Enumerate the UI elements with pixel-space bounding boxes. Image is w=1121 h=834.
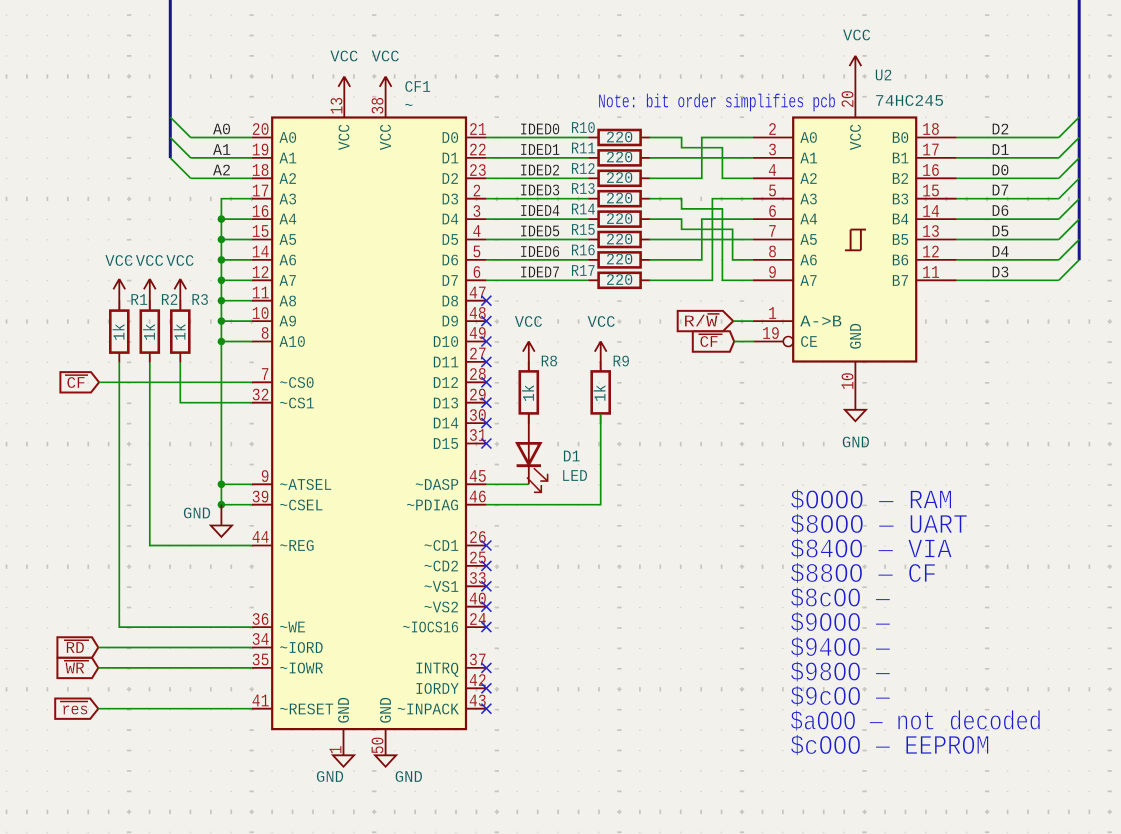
svg-text:18: 18 [922,121,940,141]
svg-text:A->B: A->B [800,314,842,333]
svg-text:41: 41 [252,692,270,712]
svg-text:VCC: VCC [378,124,397,150]
svg-text:R11: R11 [571,140,596,159]
svg-text:GND: GND [378,697,397,723]
svg-text:R1: R1 [130,292,148,311]
svg-text:VCC: VCC [337,124,356,150]
svg-text:R13: R13 [571,181,596,200]
svg-text:A6: A6 [279,253,297,272]
svg-text:B3: B3 [892,191,910,210]
svg-text:D15: D15 [433,436,459,455]
svg-text:220: 220 [606,211,634,230]
svg-text:GND: GND [395,769,423,788]
svg-text:220: 220 [606,231,634,250]
svg-text:R15: R15 [571,222,596,241]
svg-text:27: 27 [469,346,487,366]
svg-text:19: 19 [252,142,270,162]
svg-text:LED: LED [561,468,587,487]
svg-text:IDED2: IDED2 [520,162,560,181]
svg-text:R14: R14 [571,202,596,221]
svg-text:A0: A0 [800,130,818,149]
svg-text:18: 18 [252,162,270,182]
svg-text:16: 16 [922,162,940,182]
svg-text:VCC: VCC [166,253,194,272]
svg-text:D2: D2 [441,171,459,190]
svg-text:~CSEL: ~CSEL [279,497,323,516]
svg-text:38: 38 [370,97,390,115]
svg-text:D0: D0 [441,130,459,149]
svg-text:14: 14 [252,244,270,264]
svg-text:D9: D9 [441,314,459,333]
svg-text:IDED4: IDED4 [520,203,560,222]
svg-text:~REG: ~REG [279,538,314,557]
svg-text:220: 220 [606,170,634,189]
svg-text:A2: A2 [279,171,297,190]
svg-text:D3: D3 [441,191,459,210]
svg-text:26: 26 [469,529,487,549]
svg-text:res: res [62,701,89,720]
svg-text:D8: D8 [441,293,459,312]
svg-text:B7: B7 [892,273,910,292]
svg-text:VCC: VCC [843,28,871,47]
svg-text:24: 24 [469,611,487,631]
svg-text:B5: B5 [892,232,910,251]
svg-text:8: 8 [768,244,777,264]
svg-text:1: 1 [328,746,348,755]
svg-text:A4: A4 [279,212,297,231]
svg-text:GND: GND [316,769,344,788]
svg-text:D11: D11 [433,355,459,374]
svg-text:1k: 1k [593,384,612,402]
svg-text:11: 11 [922,264,940,284]
svg-text:D1: D1 [563,449,581,468]
svg-text:GND: GND [848,323,867,349]
svg-text:9: 9 [768,264,777,284]
svg-text:7: 7 [261,366,270,386]
svg-text:B2: B2 [892,171,910,190]
svg-text:9: 9 [261,468,270,488]
svg-text:12: 12 [922,244,940,264]
svg-text:A10: A10 [279,334,305,353]
svg-text:~IORD: ~IORD [279,640,323,659]
svg-text:39: 39 [252,488,270,508]
svg-text:47: 47 [469,284,487,304]
svg-text:D4: D4 [441,212,459,231]
svg-text:R8: R8 [541,354,559,373]
svg-text:A2: A2 [800,171,818,190]
svg-text:A1: A1 [800,151,818,170]
svg-text:A1: A1 [279,151,297,170]
svg-text:A3: A3 [279,191,297,210]
svg-text:A6: A6 [800,253,818,272]
svg-text:12: 12 [252,264,270,284]
svg-text:13: 13 [328,97,348,115]
svg-text:R12: R12 [571,161,596,180]
svg-text:D3: D3 [991,264,1009,283]
svg-text:GND: GND [336,697,355,723]
svg-text:~RESET: ~RESET [279,701,334,720]
svg-text:GND: GND [842,435,870,454]
svg-text:D6: D6 [991,203,1009,222]
svg-text:2: 2 [473,182,482,202]
svg-text:CE: CE [800,334,818,353]
svg-text:R10: R10 [571,120,596,139]
svg-text:13: 13 [922,223,940,243]
svg-text:43: 43 [469,692,487,712]
svg-text:220: 220 [606,252,634,271]
svg-text:D14: D14 [433,416,459,435]
svg-text:D5: D5 [441,232,459,251]
svg-text:10: 10 [252,305,270,325]
svg-text:~VS2: ~VS2 [424,599,459,618]
svg-text:D2: D2 [991,122,1009,141]
svg-text:34: 34 [252,631,270,651]
svg-text:14: 14 [922,203,940,223]
svg-text:A7: A7 [800,273,818,292]
svg-text:IDED5: IDED5 [520,224,560,243]
svg-text:45: 45 [469,468,487,488]
svg-text:CF: CF [67,375,86,394]
svg-text:~PDIAG: ~PDIAG [406,497,459,516]
svg-text:A3: A3 [800,191,818,210]
svg-text:6: 6 [473,264,482,284]
svg-text:17: 17 [922,142,940,162]
svg-text:A9: A9 [279,314,297,333]
svg-text:5: 5 [473,244,482,264]
svg-text:~CS1: ~CS1 [279,395,314,414]
svg-text:A0: A0 [279,130,297,149]
svg-text:D1: D1 [991,142,1009,161]
svg-text:R2: R2 [161,292,179,311]
svg-text:~: ~ [405,98,414,117]
svg-text:IDED7: IDED7 [520,264,560,283]
svg-text:B6: B6 [892,253,910,272]
svg-text:4: 4 [768,162,777,182]
svg-text:74HC245: 74HC245 [875,93,944,112]
svg-text:VCC: VCC [588,314,616,333]
svg-text:D4: D4 [991,244,1009,263]
svg-text:49: 49 [469,325,487,345]
svg-text:A0: A0 [213,122,231,141]
svg-text:20: 20 [839,90,859,108]
svg-text:28: 28 [469,366,487,386]
svg-text:44: 44 [252,529,270,549]
svg-text:VCC: VCC [105,253,133,272]
svg-text:WR: WR [66,661,85,680]
svg-text:21: 21 [469,121,487,141]
svg-text:220: 220 [606,150,634,169]
svg-text:IDED3: IDED3 [520,183,560,202]
svg-text:29: 29 [469,386,487,406]
svg-text:R16: R16 [571,242,596,261]
svg-text:1k: 1k [112,323,131,341]
svg-text:3: 3 [768,142,777,162]
svg-text:R9: R9 [612,354,630,373]
svg-text:D12: D12 [433,375,459,394]
svg-text:R/W: R/W [684,314,719,333]
svg-text:1k: 1k [142,323,161,341]
svg-text:10: 10 [839,372,859,390]
svg-text:~WE: ~WE [279,620,305,639]
svg-text:CF: CF [700,334,719,353]
svg-text:IDED1: IDED1 [520,142,560,161]
svg-text:50: 50 [370,737,390,755]
svg-text:~CS0: ~CS0 [279,375,314,394]
svg-text:1k: 1k [173,323,192,341]
svg-text:A8: A8 [279,293,297,312]
svg-text:VCC: VCC [515,314,543,333]
svg-text:VCC: VCC [848,124,867,150]
svg-text:VCC: VCC [330,49,358,68]
svg-text:19: 19 [762,325,780,345]
svg-text:A1: A1 [213,142,231,161]
svg-text:A5: A5 [279,232,297,251]
svg-text:48: 48 [469,305,487,325]
svg-text:15: 15 [252,223,270,243]
svg-text:VCC: VCC [372,49,400,68]
svg-text:~IOCS16: ~IOCS16 [403,620,460,639]
svg-text:A4: A4 [800,212,818,231]
svg-text:IORDY: IORDY [415,681,459,700]
svg-text:B4: B4 [892,212,910,231]
svg-text:B0: B0 [892,130,910,149]
svg-text:D7: D7 [991,183,1009,202]
svg-text:~DASP: ~DASP [415,477,459,496]
svg-text:220: 220 [606,129,634,148]
svg-text:40: 40 [469,590,487,610]
svg-text:1: 1 [768,305,777,325]
svg-text:15: 15 [922,182,940,202]
svg-text:20: 20 [252,121,270,141]
svg-text:IDED0: IDED0 [520,122,560,141]
svg-text:D6: D6 [441,253,459,272]
svg-text:16: 16 [252,203,270,223]
svg-text:~CD1: ~CD1 [424,538,459,557]
svg-text:B1: B1 [892,151,910,170]
svg-text:7: 7 [768,223,777,243]
svg-text:D5: D5 [991,224,1009,243]
svg-text:U2: U2 [875,68,893,87]
svg-text:23: 23 [469,162,487,182]
svg-text:36: 36 [252,611,270,631]
svg-text:11: 11 [252,284,270,304]
svg-text:220: 220 [606,272,634,291]
svg-text:6: 6 [768,203,777,223]
svg-text:D7: D7 [441,273,459,292]
svg-text:Note: bit order simplifies pcb: Note: bit order simplifies pcb [598,92,836,114]
svg-text:D0: D0 [991,162,1009,181]
svg-text:CF1: CF1 [405,79,431,98]
svg-text:25: 25 [469,550,487,570]
svg-text:4: 4 [473,223,482,243]
svg-text:IDED6: IDED6 [520,244,560,263]
svg-text:~IOWR: ~IOWR [279,661,323,680]
svg-text:INTRQ: INTRQ [415,661,459,680]
svg-text:17: 17 [252,182,270,202]
svg-text:~CD2: ~CD2 [424,559,459,578]
svg-text:2: 2 [768,121,777,141]
svg-text:31: 31 [469,427,487,447]
svg-text:1k: 1k [521,384,540,402]
svg-text:32: 32 [252,386,270,406]
svg-text:5: 5 [768,182,777,202]
svg-text:3: 3 [473,203,482,223]
svg-text:42: 42 [469,672,487,692]
svg-text:GND: GND [183,506,211,525]
svg-text:~VS1: ~VS1 [424,579,459,598]
svg-text:$cOOO — EEPROM: $cOOO — EEPROM [790,733,990,763]
svg-text:46: 46 [469,488,487,508]
svg-text:R3: R3 [191,292,209,311]
svg-text:37: 37 [469,652,487,672]
svg-text:~INPACK: ~INPACK [397,701,460,720]
svg-text:RD: RD [66,640,85,659]
svg-text:D10: D10 [433,334,459,353]
svg-text:~ATSEL: ~ATSEL [279,477,332,496]
svg-text:220: 220 [606,191,634,210]
svg-text:A7: A7 [279,273,297,292]
svg-text:D13: D13 [433,395,459,414]
svg-text:33: 33 [469,570,487,590]
svg-text:A2: A2 [213,162,231,181]
svg-text:D1: D1 [441,151,459,170]
svg-text:22: 22 [469,142,487,162]
svg-text:8: 8 [261,325,270,345]
svg-text:35: 35 [252,652,270,672]
svg-text:R17: R17 [571,263,596,282]
svg-text:A5: A5 [800,232,818,251]
svg-text:30: 30 [469,407,487,427]
svg-text:VCC: VCC [136,253,164,272]
